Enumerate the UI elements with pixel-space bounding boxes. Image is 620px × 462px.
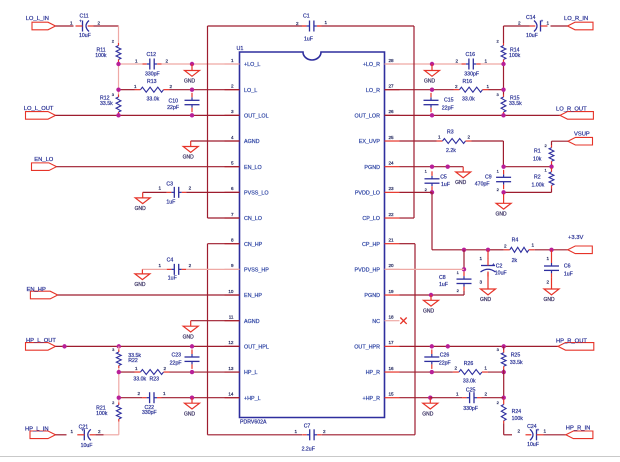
svg-text:GND: GND bbox=[455, 180, 467, 186]
svg-text:GND: GND bbox=[135, 206, 147, 212]
svg-text:GND: GND bbox=[424, 79, 436, 85]
svg-text:2.2uF: 2.2uF bbox=[302, 447, 315, 453]
svg-text:16: 16 bbox=[389, 366, 395, 371]
svg-text:CP_HP: CP_HP bbox=[362, 242, 380, 248]
svg-text:LO_R_IN: LO_R_IN bbox=[564, 16, 588, 22]
svg-text:C6: C6 bbox=[564, 263, 571, 269]
svg-text:28: 28 bbox=[389, 58, 395, 63]
svg-text:470pF: 470pF bbox=[475, 181, 490, 187]
svg-text:LO_L_OUT: LO_L_OUT bbox=[24, 106, 54, 112]
svg-text:1: 1 bbox=[456, 391, 459, 396]
svg-text:HP_L: HP_L bbox=[244, 370, 258, 376]
svg-text:1: 1 bbox=[163, 391, 166, 396]
svg-text:19: 19 bbox=[389, 289, 395, 294]
svg-text:GND: GND bbox=[183, 155, 195, 161]
svg-text:OUT_LOR: OUT_LOR bbox=[355, 114, 381, 120]
svg-text:VSUP: VSUP bbox=[574, 131, 590, 137]
svg-text:2: 2 bbox=[189, 263, 192, 268]
svg-text:1: 1 bbox=[479, 256, 482, 261]
svg-text:+3.3V: +3.3V bbox=[568, 235, 583, 241]
svg-text:C1: C1 bbox=[303, 13, 310, 19]
svg-text:9: 9 bbox=[231, 263, 234, 268]
svg-text:5: 5 bbox=[231, 160, 234, 165]
svg-text:2: 2 bbox=[455, 58, 458, 63]
svg-text:33.0k: 33.0k bbox=[463, 379, 476, 385]
svg-text:C23: C23 bbox=[171, 353, 181, 359]
svg-text:8: 8 bbox=[231, 237, 234, 242]
svg-text:6: 6 bbox=[231, 186, 234, 191]
svg-text:+HP_R: +HP_R bbox=[362, 396, 380, 402]
svg-text:2: 2 bbox=[296, 21, 299, 26]
svg-text:GND: GND bbox=[543, 297, 555, 303]
svg-text:10k: 10k bbox=[533, 156, 542, 162]
svg-text:PDRV602A: PDRV602A bbox=[240, 419, 267, 425]
svg-text:C3: C3 bbox=[166, 181, 173, 187]
svg-text:33.5k: 33.5k bbox=[510, 360, 523, 366]
svg-text:4: 4 bbox=[231, 135, 234, 140]
svg-text:33.0k: 33.0k bbox=[147, 97, 160, 103]
svg-text:GND: GND bbox=[480, 297, 492, 303]
svg-text:EN_LO: EN_LO bbox=[34, 157, 54, 163]
svg-text:C7: C7 bbox=[304, 424, 311, 430]
svg-text:7: 7 bbox=[231, 212, 234, 217]
svg-text:2k: 2k bbox=[512, 258, 518, 264]
svg-text:1: 1 bbox=[325, 20, 328, 25]
svg-text:22pF: 22pF bbox=[442, 105, 454, 111]
svg-text:2: 2 bbox=[189, 186, 192, 191]
svg-text:1: 1 bbox=[544, 429, 547, 434]
svg-text:24: 24 bbox=[389, 160, 395, 165]
svg-text:PGND: PGND bbox=[364, 165, 380, 171]
svg-text:PVDD_HP: PVDD_HP bbox=[355, 268, 381, 274]
svg-text:PGND: PGND bbox=[364, 293, 380, 299]
svg-text:2: 2 bbox=[323, 429, 326, 434]
svg-text:13: 13 bbox=[228, 366, 234, 371]
svg-text:LO_R: LO_R bbox=[366, 88, 380, 94]
svg-text:R24: R24 bbox=[512, 409, 522, 415]
svg-text:1: 1 bbox=[70, 429, 73, 434]
svg-text:HP_L_OUT: HP_L_OUT bbox=[26, 338, 56, 344]
svg-text:1: 1 bbox=[158, 186, 161, 191]
svg-text:22pF: 22pF bbox=[170, 361, 182, 367]
svg-text:2: 2 bbox=[518, 21, 521, 26]
svg-text:2: 2 bbox=[455, 84, 458, 89]
svg-text:1uF: 1uF bbox=[168, 276, 177, 282]
svg-text:LO_L: LO_L bbox=[244, 88, 257, 94]
svg-text:1: 1 bbox=[231, 58, 234, 63]
svg-text:10uF: 10uF bbox=[527, 442, 539, 448]
svg-text:22pF: 22pF bbox=[439, 361, 451, 367]
svg-text:330pF: 330pF bbox=[464, 72, 479, 78]
svg-text:100k: 100k bbox=[96, 411, 108, 417]
svg-text:HP_R: HP_R bbox=[366, 370, 380, 376]
svg-text:2: 2 bbox=[504, 244, 507, 249]
svg-text:C4: C4 bbox=[167, 258, 174, 264]
svg-text:26: 26 bbox=[389, 109, 395, 114]
svg-text:1: 1 bbox=[135, 366, 138, 371]
svg-text:C16: C16 bbox=[466, 52, 476, 58]
svg-text:NC: NC bbox=[372, 319, 380, 325]
svg-text:GND: GND bbox=[183, 334, 195, 340]
svg-text:25: 25 bbox=[389, 135, 395, 140]
svg-text:330pF: 330pF bbox=[145, 72, 160, 78]
svg-text:2: 2 bbox=[98, 429, 101, 434]
svg-text:GND: GND bbox=[423, 309, 435, 315]
svg-text:OUT_HPL: OUT_HPL bbox=[244, 345, 269, 351]
svg-text:C12: C12 bbox=[147, 52, 157, 58]
svg-text:2: 2 bbox=[170, 84, 173, 89]
svg-text:33.0k: 33.0k bbox=[462, 97, 475, 103]
svg-text:AGND: AGND bbox=[244, 319, 260, 325]
svg-text:EN_LO: EN_LO bbox=[244, 165, 262, 171]
svg-text:CN_HP: CN_HP bbox=[244, 242, 263, 248]
svg-text:C2: C2 bbox=[496, 263, 503, 269]
svg-text:2: 2 bbox=[137, 391, 140, 396]
svg-text:CN_LO: CN_LO bbox=[244, 216, 262, 222]
svg-text:100k: 100k bbox=[509, 53, 521, 59]
svg-text:C10: C10 bbox=[168, 98, 178, 104]
svg-text:1: 1 bbox=[294, 429, 297, 434]
svg-text:1: 1 bbox=[547, 21, 550, 26]
svg-text:2: 2 bbox=[468, 135, 471, 140]
svg-text:LO_R_OUT: LO_R_OUT bbox=[556, 107, 587, 113]
svg-text:EN_HP: EN_HP bbox=[244, 293, 262, 299]
svg-text:R25: R25 bbox=[511, 353, 521, 359]
svg-text:R22: R22 bbox=[128, 358, 138, 364]
svg-text:11: 11 bbox=[229, 315, 234, 320]
svg-text:CP_LO: CP_LO bbox=[362, 216, 380, 222]
svg-text:100k: 100k bbox=[512, 416, 524, 422]
svg-text:R1: R1 bbox=[534, 148, 541, 154]
svg-text:3: 3 bbox=[479, 279, 482, 284]
svg-text:33.5k: 33.5k bbox=[509, 101, 522, 107]
svg-text:2: 2 bbox=[164, 366, 167, 371]
svg-text:EX_UVP: EX_UVP bbox=[359, 139, 381, 145]
svg-text:12: 12 bbox=[228, 340, 234, 345]
svg-text:U1: U1 bbox=[237, 46, 244, 52]
svg-text:2: 2 bbox=[98, 21, 101, 26]
svg-text:GND: GND bbox=[422, 411, 434, 417]
svg-text:C26: C26 bbox=[440, 352, 450, 358]
svg-text:2: 2 bbox=[546, 279, 549, 284]
svg-text:2: 2 bbox=[231, 83, 234, 88]
svg-text:17: 17 bbox=[389, 340, 395, 345]
svg-text:R23: R23 bbox=[150, 376, 160, 382]
svg-text:23: 23 bbox=[389, 186, 395, 191]
svg-text:1: 1 bbox=[546, 256, 549, 261]
svg-text:R16: R16 bbox=[463, 79, 473, 85]
svg-text:+LO_L: +LO_L bbox=[244, 62, 260, 68]
svg-text:1uF: 1uF bbox=[441, 182, 450, 188]
svg-text:2: 2 bbox=[485, 391, 488, 396]
svg-text:1: 1 bbox=[135, 58, 138, 63]
svg-text:100k: 100k bbox=[95, 53, 107, 59]
svg-text:1: 1 bbox=[158, 263, 161, 268]
svg-text:AGND: AGND bbox=[244, 139, 260, 145]
svg-text:R3: R3 bbox=[447, 129, 454, 135]
svg-text:1: 1 bbox=[134, 84, 137, 89]
svg-text:1: 1 bbox=[485, 58, 488, 63]
svg-text:1uF: 1uF bbox=[304, 36, 313, 42]
svg-text:GND: GND bbox=[184, 411, 196, 417]
svg-text:PVSS_LO: PVSS_LO bbox=[244, 191, 269, 197]
svg-text:18: 18 bbox=[389, 315, 395, 320]
svg-text:20: 20 bbox=[389, 263, 395, 268]
svg-text:GND: GND bbox=[496, 212, 508, 218]
svg-text:C9: C9 bbox=[485, 174, 492, 180]
svg-text:1: 1 bbox=[70, 21, 73, 26]
svg-text:1: 1 bbox=[532, 243, 535, 248]
svg-text:OUT_LOL: OUT_LOL bbox=[244, 114, 269, 120]
svg-text:15: 15 bbox=[389, 392, 395, 397]
svg-text:22pF: 22pF bbox=[167, 105, 179, 111]
svg-text:+LO_R: +LO_R bbox=[363, 62, 380, 68]
svg-text:GND: GND bbox=[134, 282, 146, 288]
svg-text:1.00k: 1.00k bbox=[532, 183, 545, 189]
svg-text:C14: C14 bbox=[526, 15, 536, 21]
svg-text:OUT_HPR: OUT_HPR bbox=[354, 345, 380, 351]
svg-text:HP_R_OUT: HP_R_OUT bbox=[556, 338, 587, 344]
svg-text:PVDD_LO: PVDD_LO bbox=[355, 191, 380, 197]
svg-text:3: 3 bbox=[231, 109, 234, 114]
svg-text:R2: R2 bbox=[534, 175, 541, 181]
svg-text:PVSS_HP: PVSS_HP bbox=[244, 268, 269, 274]
svg-text:10uF: 10uF bbox=[81, 443, 93, 449]
svg-text:33.0k: 33.0k bbox=[133, 376, 146, 382]
svg-text:HP_L_IN: HP_L_IN bbox=[25, 426, 49, 432]
svg-text:C5: C5 bbox=[440, 175, 447, 181]
svg-text:EN_HP: EN_HP bbox=[27, 287, 46, 293]
svg-text:GND: GND bbox=[184, 79, 196, 85]
svg-text:22: 22 bbox=[389, 212, 395, 217]
svg-text:1uF: 1uF bbox=[166, 200, 175, 206]
svg-text:14: 14 bbox=[228, 392, 234, 397]
svg-text:HP_R_IN: HP_R_IN bbox=[566, 426, 590, 432]
svg-text:2.2k: 2.2k bbox=[446, 148, 456, 154]
svg-text:1uF: 1uF bbox=[439, 282, 448, 288]
svg-text:LO_L_IN: LO_L_IN bbox=[26, 16, 49, 22]
svg-text:330pF: 330pF bbox=[463, 406, 478, 412]
svg-text:1: 1 bbox=[484, 365, 487, 370]
svg-text:1: 1 bbox=[438, 135, 441, 140]
svg-text:C24: C24 bbox=[527, 424, 537, 430]
svg-text:C15: C15 bbox=[444, 98, 454, 104]
svg-text:1: 1 bbox=[487, 84, 490, 89]
svg-text:10uF: 10uF bbox=[79, 33, 91, 39]
svg-text:C8: C8 bbox=[439, 275, 446, 281]
svg-text:21: 21 bbox=[389, 237, 395, 242]
svg-text:2: 2 bbox=[517, 429, 520, 434]
svg-text:27: 27 bbox=[389, 83, 395, 88]
svg-text:R26: R26 bbox=[464, 361, 474, 367]
svg-text:10uF: 10uF bbox=[526, 33, 538, 39]
svg-text:C25: C25 bbox=[466, 388, 476, 394]
svg-text:2: 2 bbox=[454, 365, 457, 370]
svg-text:10uF: 10uF bbox=[495, 270, 507, 276]
svg-text:R13: R13 bbox=[147, 79, 157, 85]
svg-text:10: 10 bbox=[228, 289, 234, 294]
svg-text:+HP_L: +HP_L bbox=[244, 396, 261, 402]
svg-text:2: 2 bbox=[166, 58, 169, 63]
svg-text:33.5k: 33.5k bbox=[100, 101, 113, 107]
svg-text:1uF: 1uF bbox=[564, 271, 573, 277]
svg-text:330pF: 330pF bbox=[142, 410, 157, 416]
svg-text:R4: R4 bbox=[512, 238, 519, 244]
